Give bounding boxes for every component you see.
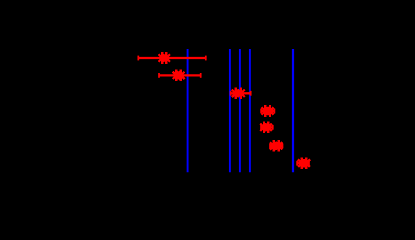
data row 6: asterisk markers (two overlapping points) (270, 140, 282, 152)
data row 5: asterisk markers (two overlapping points) (260, 122, 272, 134)
data row 6: error bar (270, 144, 283, 149)
data row 3: asterisk markers (two overlapping points) (232, 88, 245, 100)
blue vertical line 2 (229, 49, 231, 172)
blue vertical line 3 (239, 49, 241, 172)
data row 1: asterisk markers (two overlapping points) (159, 52, 171, 64)
blue vertical line 4 (249, 49, 251, 172)
blue vertical line 5 (292, 49, 294, 172)
data row 1: error bar (138, 56, 206, 61)
data row 3: error bar (231, 91, 251, 96)
data row 4: error bar (261, 109, 274, 114)
data row 2: error bar (159, 73, 201, 78)
blue vertical line 1 (187, 49, 189, 172)
data row 7: error bar (297, 161, 309, 166)
data row 4: asterisk markers (two overlapping points) (261, 105, 273, 117)
data row 5: error bar (261, 125, 273, 130)
data row 2: asterisk markers (two overlapping points) (173, 70, 185, 82)
data row 7: asterisk markers (two overlapping points) (298, 157, 310, 169)
